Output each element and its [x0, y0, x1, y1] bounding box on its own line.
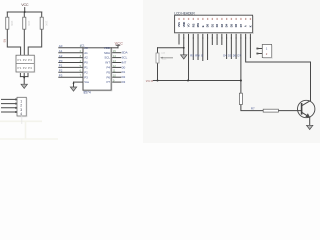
- svg-text:RW: RW: [196, 22, 200, 27]
- svg-text:VSS: VSS: [177, 22, 181, 27]
- svg-text:A2: A2: [59, 54, 63, 58]
- svg-text:A2: A2: [84, 56, 88, 60]
- svg-text:R5: R5: [3, 39, 7, 43]
- svg-text:RS: RS: [191, 23, 195, 27]
- svg-text:VDD: VDD: [104, 46, 110, 50]
- svg-text:D7: D7: [237, 54, 241, 58]
- svg-text:8574: 8574: [84, 91, 91, 95]
- svg-text:VO: VO: [187, 24, 191, 28]
- svg-text:P7: P7: [106, 80, 110, 84]
- svg-text:A0: A0: [59, 44, 63, 48]
- svg-text:K: K: [249, 25, 253, 27]
- svg-text:A1: A1: [84, 51, 88, 55]
- svg-text:10K: 10K: [44, 21, 48, 26]
- svg-text:Vss: Vss: [84, 80, 89, 84]
- svg-text:D1: D1: [122, 70, 126, 74]
- svg-text:R7: R7: [251, 106, 255, 110]
- svg-text:A0: A0: [84, 46, 88, 50]
- svg-text:SDA: SDA: [104, 51, 110, 55]
- svg-text:RW: RW: [195, 54, 200, 58]
- svg-text:10K: 10K: [10, 21, 14, 26]
- svg-text:VCC: VCC: [115, 41, 124, 45]
- svg-text:D6: D6: [233, 54, 237, 58]
- svg-text:P4: P4: [106, 66, 110, 70]
- svg-text:SDA: SDA: [122, 51, 128, 55]
- svg-text:10K: 10K: [27, 21, 31, 26]
- svg-text:SCL: SCL: [122, 56, 128, 60]
- svg-text:P3: P3: [84, 75, 88, 79]
- svg-text:10K: 10K: [162, 57, 167, 61]
- svg-text:P5: P5: [106, 70, 110, 74]
- svg-text:INT: INT: [105, 61, 110, 65]
- svg-text:P0: P0: [59, 59, 63, 63]
- svg-text:4: 4: [20, 112, 22, 116]
- svg-text:P2: P2: [59, 69, 63, 73]
- svg-text:A1: A1: [59, 49, 63, 53]
- svg-text:P1 P2 P3: P1 P2 P3: [18, 66, 33, 70]
- svg-text:VDD: VDD: [182, 22, 186, 27]
- svg-text:P1: P1: [59, 64, 63, 68]
- svg-text:VCC: VCC: [146, 79, 154, 83]
- svg-text:P6: P6: [106, 75, 110, 79]
- svg-text:P3: P3: [59, 74, 63, 78]
- svg-text:D4: D4: [223, 54, 227, 58]
- svg-text:D3: D3: [122, 80, 126, 84]
- svg-text:D2: D2: [122, 75, 126, 79]
- svg-text:A: A: [244, 25, 248, 27]
- svg-text:D5: D5: [228, 54, 232, 58]
- svg-text:R8: R8: [162, 51, 166, 55]
- svg-text:P0: P0: [84, 61, 88, 65]
- svg-text:SCL: SCL: [104, 56, 110, 60]
- svg-text:P1 P2 P3: P1 P2 P3: [18, 58, 33, 62]
- svg-text:RS: RS: [190, 54, 194, 58]
- svg-text:E: E: [201, 54, 203, 58]
- svg-text:INT: INT: [122, 60, 127, 64]
- svg-text:VCC: VCC: [21, 3, 29, 7]
- svg-text:P1: P1: [84, 66, 88, 70]
- svg-text:D0: D0: [122, 65, 126, 69]
- svg-text:P2: P2: [84, 70, 88, 74]
- svg-text:IC1: IC1: [80, 44, 85, 48]
